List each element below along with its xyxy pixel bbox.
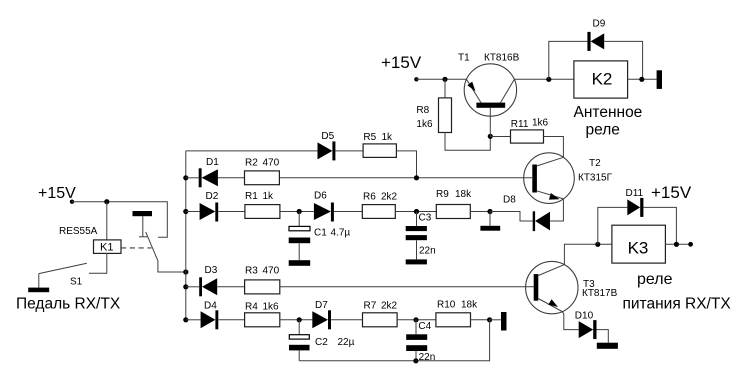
wire T3 collector to K3 <box>564 244 612 264</box>
node K3 left <box>595 242 600 247</box>
transistor T2 <box>524 153 575 204</box>
wire K1 coil bottom lead to S1 <box>89 253 107 273</box>
switch S1 lever <box>39 263 87 273</box>
diode D5 <box>318 142 333 159</box>
wire R3 to T3 base <box>280 286 534 288</box>
wire D11 branch <box>598 207 628 244</box>
wire R11 to T2 collector <box>544 137 564 158</box>
diode D3 <box>199 277 202 296</box>
svg-text:D11: D11 <box>626 188 644 199</box>
svg-text:K2: K2 <box>592 70 613 89</box>
wire D2 to R1 <box>218 211 245 213</box>
capacitor C2 electrolytic <box>298 320 300 335</box>
wire R7 to R10 <box>397 319 436 321</box>
resistor R2 <box>245 171 280 185</box>
node bus row D1 <box>183 175 188 180</box>
transistor T3 <box>526 261 578 313</box>
svg-text:2k2: 2k2 <box>381 192 398 203</box>
node R9 right junction <box>487 209 492 214</box>
svg-text:D6: D6 <box>314 191 327 202</box>
svg-text:Педаль RX/TX: Педаль RX/TX <box>16 296 121 313</box>
svg-text:КТ315Г: КТ315Г <box>578 173 613 184</box>
ground at K1 contact (T bar) <box>133 211 153 216</box>
wire R6 to R9 <box>395 211 436 213</box>
terminal dot +15V T1 <box>414 77 418 81</box>
svg-text:R7: R7 <box>364 301 377 312</box>
wire R1 to D6 <box>280 211 314 213</box>
wire +15V to T1 emitter <box>416 78 466 80</box>
diode D4 <box>201 311 216 328</box>
wire D7 to R7 <box>331 319 363 321</box>
wire D1 to R2 <box>218 177 245 179</box>
svg-text:D1: D1 <box>206 157 219 168</box>
diode D6 <box>314 203 331 220</box>
svg-text:R5: R5 <box>363 132 376 143</box>
node bus row D4 <box>183 317 188 322</box>
resistor R6 <box>362 205 395 219</box>
node rail C4 junction <box>413 358 418 363</box>
capacitor C4 <box>415 320 417 335</box>
wire bus to D1 <box>186 177 199 179</box>
node C4 junction <box>413 317 418 322</box>
svg-text:D3: D3 <box>205 265 218 276</box>
wire +15V rail to relay contact loop <box>72 202 167 238</box>
wire T1 collector to K2 <box>514 78 574 80</box>
svg-text:D7: D7 <box>315 300 328 311</box>
wire left vertical bus <box>185 151 187 320</box>
svg-text:K3: K3 <box>628 239 649 258</box>
wire D9 to K2 right <box>604 41 642 79</box>
svg-text:D8: D8 <box>503 195 516 206</box>
node C2 junction <box>297 317 302 322</box>
svg-text:КТ816В: КТ816В <box>484 53 520 64</box>
svg-text:18k: 18k <box>455 189 472 200</box>
svg-text:R9: R9 <box>436 189 449 200</box>
resistor R5 <box>363 144 396 158</box>
svg-text:R10: R10 <box>437 300 456 311</box>
node T1 base / R11 junction <box>488 134 493 139</box>
wire K3 right to output <box>665 243 690 245</box>
wire R2 to T2 base <box>279 177 532 179</box>
node K2 right <box>639 77 644 82</box>
svg-text:1k: 1k <box>263 191 275 202</box>
svg-text:D5: D5 <box>321 131 334 142</box>
resistor R11 <box>490 136 510 138</box>
node R10 right junction <box>487 317 492 322</box>
svg-text:1k6: 1k6 <box>263 301 280 312</box>
wire D4 to R4 <box>218 319 244 321</box>
relay K1 contact armature <box>146 232 186 272</box>
wire R5 down to row D1 node <box>396 151 416 178</box>
svg-text:C1: C1 <box>314 228 327 239</box>
node bus row D3 <box>183 284 188 289</box>
svg-text:22µ: 22µ <box>338 337 355 348</box>
resistor R7 <box>363 313 398 327</box>
mechanical link K1 dashed <box>121 247 152 249</box>
svg-text:реле: реле <box>586 122 620 139</box>
wire D6 to R6 <box>334 211 362 213</box>
ground at R9 node <box>489 212 491 226</box>
wire R8 bottom to T1 base node <box>445 133 490 151</box>
svg-text:R6: R6 <box>363 192 376 203</box>
svg-text:R11: R11 <box>511 119 529 130</box>
wire row D5 from bus <box>186 150 318 152</box>
node K2 left <box>546 77 551 82</box>
wire bus to D4 <box>186 319 201 321</box>
node C1 junction <box>297 209 302 214</box>
ground at C3 <box>406 259 427 264</box>
svg-text:470: 470 <box>263 265 280 276</box>
resistor R3 <box>245 280 280 294</box>
svg-text:K1: K1 <box>100 242 113 254</box>
wire K2 to ground <box>628 78 657 80</box>
diode D10 <box>579 321 594 338</box>
resistor R8 <box>444 79 446 98</box>
svg-text:D9: D9 <box>593 19 606 30</box>
svg-text:470: 470 <box>263 158 280 169</box>
svg-text:D2: D2 <box>206 191 219 202</box>
diode D8 <box>533 211 535 231</box>
wire D8 to T2 emitter <box>550 199 563 221</box>
wire T3 emitter to D10 <box>562 312 578 330</box>
ground at K2 <box>657 70 662 89</box>
svg-text:C2: C2 <box>315 337 328 348</box>
relay K2 <box>574 61 628 98</box>
transistor T1 <box>464 64 516 116</box>
wire node to D8 <box>490 212 533 222</box>
diode D7 <box>312 311 328 328</box>
ground at D10 <box>597 343 618 349</box>
diode D11 <box>627 199 640 215</box>
ground at R10 node <box>490 319 501 321</box>
wire D3 to R3 <box>217 286 244 288</box>
svg-text:питания RX/TX: питания RX/TX <box>623 296 732 313</box>
svg-text:+15V: +15V <box>38 185 76 202</box>
node C3 junction <box>414 209 419 214</box>
svg-text:22n: 22n <box>419 245 436 256</box>
capacitor C3 <box>416 212 418 227</box>
wire T1 base lead <box>489 108 491 137</box>
wire S1 left post <box>38 274 40 288</box>
terminal dot +15V left <box>70 200 74 204</box>
svg-text:T2: T2 <box>589 158 601 169</box>
wire R4 to D7 <box>280 319 313 321</box>
svg-text:R1: R1 <box>245 191 258 202</box>
resistor R10 <box>436 313 471 327</box>
wire C3 to ground <box>416 240 418 259</box>
svg-text:R8: R8 <box>416 105 429 116</box>
svg-text:+15V: +15V <box>381 53 422 72</box>
wire R10 to node <box>471 319 490 321</box>
wire bus to D3 <box>186 286 199 288</box>
svg-text:R2: R2 <box>245 158 258 169</box>
relay coil K1 <box>94 240 122 254</box>
resistor R9 <box>436 205 470 219</box>
wire bus to D2 <box>186 211 200 213</box>
wire D5 to R5 <box>335 150 363 152</box>
svg-text:реле: реле <box>637 271 673 288</box>
wire C4 to bottom rail <box>415 351 417 361</box>
svg-text:18k: 18k <box>461 300 478 311</box>
node R5/D1 row junction <box>414 175 419 180</box>
svg-text:S1: S1 <box>70 277 83 288</box>
node K3 right <box>674 242 679 247</box>
node bus row D2 <box>183 209 188 214</box>
wire C1 to ground <box>298 243 300 260</box>
svg-text:D10: D10 <box>575 311 594 322</box>
svg-text:1k: 1k <box>382 132 394 143</box>
svg-text:1k6: 1k6 <box>532 118 549 129</box>
wire bottom rail <box>299 320 489 361</box>
svg-text:22n: 22n <box>419 352 436 363</box>
diode D2 <box>200 203 216 220</box>
svg-text:T1: T1 <box>458 53 470 64</box>
wire C2 to bottom rail <box>298 350 300 360</box>
terminal dot output <box>688 242 693 247</box>
wire D9 branch <box>549 41 588 79</box>
diode D9 <box>587 32 590 51</box>
svg-text:R3: R3 <box>245 265 258 276</box>
wire R9 to node <box>470 211 490 213</box>
svg-text:+15V: +15V <box>651 183 692 202</box>
svg-text:C3: C3 <box>419 213 432 224</box>
capacitor C1 electrolytic <box>298 212 300 227</box>
wire K1 coil top lead <box>106 202 108 240</box>
relay K3 <box>612 225 666 263</box>
resistor R4 <box>245 313 280 327</box>
svg-text:D4: D4 <box>204 301 217 312</box>
wire D10 to ground <box>597 330 609 343</box>
resistor R1 <box>245 205 280 219</box>
svg-text:R4: R4 <box>245 301 258 312</box>
svg-text:1k6: 1k6 <box>416 119 433 130</box>
diode D1 <box>199 168 202 187</box>
ground at C1 <box>289 260 311 266</box>
svg-text:RES55A: RES55A <box>59 226 98 237</box>
svg-text:2k2: 2k2 <box>381 301 398 312</box>
ground at S1 <box>28 288 49 293</box>
wire D11 to K3 right <box>643 207 676 244</box>
node R8 tap <box>442 77 447 82</box>
svg-text:КТ817В: КТ817В <box>582 288 618 299</box>
node junction K1 coil tap <box>104 199 109 204</box>
svg-text:4.7µ: 4.7µ <box>331 228 351 239</box>
svg-text:C4: C4 <box>418 321 431 332</box>
svg-text:Антенное: Антенное <box>574 104 643 121</box>
node armature to bus <box>183 269 188 274</box>
